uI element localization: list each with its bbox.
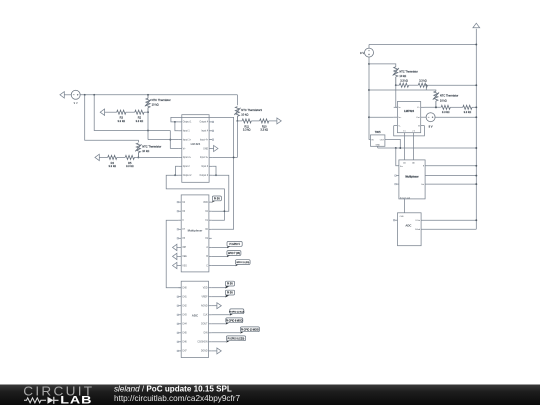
- ground flag F2: [100, 109, 104, 115]
- svg-text:Pi GPIO 5: Pi GPIO 5: [229, 244, 240, 246]
- svg-text:V-: V-: [398, 125, 400, 127]
- wire M2 out to A2: [404, 199, 406, 213]
- M1 pin X5: [178, 237, 181, 239]
- svg-text:9 V: 9 V: [429, 124, 433, 128]
- A2 pin CH1: [395, 219, 398, 221]
- svg-text:R4: R4: [111, 161, 115, 165]
- M2 pin S0: [396, 183, 399, 185]
- svg-text:9 V: 9 V: [360, 51, 364, 55]
- M2 pin right row 175.6: [425, 175, 476, 177]
- svg-text:Pi 5V: Pi 5V: [227, 292, 233, 295]
- svg-text:Pi GPIO 8 (CE0): Pi GPIO 8 (CE0): [228, 338, 245, 340]
- U2 pin Output 1: [179, 121, 182, 123]
- U2 pin Input 1: [179, 130, 182, 132]
- svg-text:LM 324: LM 324: [191, 142, 201, 146]
- svg-text:Input 2: Input 2: [183, 165, 191, 168]
- wire 7805 OUT: [385, 139, 400, 148]
- svg-text:CH5: CH5: [182, 333, 187, 335]
- svg-text:3.3 kΩ: 3.3 kΩ: [464, 110, 472, 114]
- wire to In1+: [148, 139, 179, 141]
- svg-text:Input 4+: Input 4+: [200, 138, 209, 141]
- resistor R2: [135, 110, 144, 114]
- U3 pin Out: [421, 116, 425, 118]
- svg-text:Pi GPIO 11 SCLK: Pi GPIO 11 SCLK: [229, 311, 245, 313]
- svg-text:Input 1: Input 1: [183, 130, 191, 133]
- svg-text:R11: R11: [244, 124, 249, 128]
- M2 pin En: [396, 175, 399, 177]
- svg-text:CH4: CH4: [182, 324, 187, 326]
- svg-text:Multiplexer: Multiplexer: [405, 175, 418, 178]
- wire to V+: [170, 148, 178, 150]
- A1 pin CH4: [178, 323, 181, 325]
- M1 pin VEE: [178, 255, 181, 257]
- wire jog to RT5: [425, 85, 427, 90]
- svg-text:VDD: VDD: [203, 288, 208, 290]
- svg-text:3.3 kΩ: 3.3 kΩ: [109, 164, 117, 168]
- wire drop B to node row: [94, 95, 170, 131]
- M1 pin X4: [178, 201, 181, 203]
- M2 pin right E row 165.8: [425, 165, 476, 167]
- wire RT3 tap down to In3+: [236, 121, 238, 157]
- U2 pin Input 2: [179, 165, 182, 167]
- U3 pin In-: [394, 106, 398, 108]
- wire top rail right: [369, 44, 476, 46]
- A2 pin DOUT: [421, 219, 476, 221]
- svg-text:CH7: CH7: [182, 351, 187, 353]
- M2 pin right Out row 184.1: [425, 183, 476, 185]
- svg-text:X (Com out): X (Com out): [400, 196, 411, 199]
- U2 pin Input 4: [209, 130, 212, 132]
- op-amp U2 LM324: [182, 115, 209, 183]
- U2 pin Output 2: [179, 174, 182, 176]
- svg-text:3.3 kΩ: 3.3 kΩ: [400, 79, 408, 83]
- U2 pin Input 3: [209, 165, 212, 167]
- wire Out3 to mux: [212, 175, 229, 211]
- A1 pin CH7: [178, 350, 181, 352]
- svg-text:R3: R3: [120, 116, 124, 120]
- svg-text:DGnd: DGnd: [415, 229, 420, 231]
- wire In2- feedback: [176, 166, 179, 175]
- wire right bus: [475, 29, 477, 229]
- voltage source V1 9V: [71, 90, 80, 99]
- svg-text:3.3 kΩ: 3.3 kΩ: [118, 119, 126, 123]
- wire to In2+: [134, 156, 178, 158]
- svg-text:9 V: 9 V: [74, 101, 78, 105]
- svg-text:Input 2+: Input 2+: [183, 156, 192, 159]
- svg-text:ADC: ADC: [192, 313, 199, 317]
- A1 pin CH5: [178, 332, 181, 334]
- U2 pin Output 3: [209, 174, 212, 176]
- NTC thermistor RT4: [393, 67, 399, 85]
- svg-text:DIN: DIN: [204, 333, 208, 335]
- svg-text:1 k: 1 k: [403, 130, 406, 132]
- ADC A1 MCP3008: [181, 281, 208, 357]
- U2 pin V+: [179, 148, 182, 150]
- multiplexer M1: [181, 195, 209, 272]
- U3 pin B: [421, 125, 425, 127]
- svg-text:NTC Thermistor: NTC Thermistor: [152, 98, 171, 102]
- power flag (up) right bus: [473, 23, 480, 28]
- NTC thermistor RT1: [145, 95, 151, 112]
- NTC thermistor RT2: [135, 143, 141, 157]
- svg-text:R5: R5: [128, 161, 132, 165]
- net flag Pi GPIO 5: [212, 246, 228, 248]
- svg-text:Pi 5V: Pi 5V: [214, 197, 220, 200]
- svg-text:sleland / PoC update 10.15 SPL: sleland / PoC update 10.15 SPL: [114, 385, 232, 394]
- M1 pin X0: [209, 228, 212, 230]
- svg-text:NTC Thermistor: NTC Thermistor: [440, 94, 459, 98]
- wire R3/R2 row: [104, 111, 116, 113]
- svg-text:CH3: CH3: [182, 315, 187, 317]
- M1 pin X: [178, 219, 181, 221]
- ground flag M1 VEE: [173, 253, 177, 259]
- U3 pin In+: [394, 116, 398, 118]
- M1 pin X1: [209, 219, 212, 221]
- resistor R5: [125, 155, 134, 159]
- svg-text:CLK: CLK: [203, 315, 208, 317]
- wire drop to M2: [396, 148, 399, 166]
- A1 pin AGND: [209, 305, 212, 307]
- wire drop to thermistor RT2: [85, 95, 139, 143]
- svg-text:VEE: VEE: [182, 256, 187, 258]
- svg-text:VSS: VSS: [182, 265, 187, 267]
- M1 pin X2: [209, 210, 212, 212]
- ground flag M1 VSS: [173, 262, 177, 268]
- svg-text:2 k: 2 k: [412, 130, 415, 132]
- wire Out1 feedback + routing over chip: [171, 117, 234, 229]
- net flag Pi 5V (M1 VDD): [211, 200, 218, 203]
- svg-text:CH0: CH0: [400, 216, 404, 218]
- svg-text:A0: A0: [412, 162, 414, 165]
- svg-text:CS/SHDN: CS/SHDN: [197, 342, 208, 344]
- wire RT4 tap to U3 In-: [396, 85, 398, 107]
- resistor R4: [108, 155, 117, 159]
- wire R4/R5 row: [99, 156, 108, 158]
- svg-text:Input 1+: Input 1+: [183, 138, 192, 141]
- svg-text:NTC Thermistor3: NTC Thermistor3: [241, 108, 262, 112]
- voltage source V3 9V: [425, 116, 427, 118]
- svg-text:CH6: CH6: [182, 342, 187, 344]
- A1 pin DGND: [209, 350, 212, 352]
- ground flag chip GND: [212, 148, 214, 150]
- U2 pin Output 4: [209, 121, 212, 123]
- svg-text:NTC Thermistor: NTC Thermistor: [142, 144, 161, 148]
- svg-text:CH1: CH1: [182, 297, 187, 299]
- svg-text:A1: A1: [403, 162, 405, 165]
- ADC A2: [398, 213, 422, 246]
- svg-text:10 kΩ: 10 kΩ: [399, 74, 406, 78]
- svg-text:3.3 kΩ: 3.3 kΩ: [136, 119, 144, 123]
- net flag Pi GPIO 11 SCLK: [211, 314, 230, 316]
- wire 9V top rail: [80, 94, 238, 96]
- net flag Pi 5V (A1 VDD): [211, 287, 225, 289]
- svg-text:GPIO 11 (23): GPIO 11 (23): [236, 262, 249, 264]
- M1 pin X7: [178, 228, 181, 230]
- U2 pin GND: [209, 148, 212, 150]
- wire tap drop: [147, 112, 149, 139]
- ground flag F3: [95, 154, 99, 160]
- ground flag F1: [60, 92, 64, 98]
- A1 pin CH0: [178, 287, 181, 289]
- M1 pin C: [209, 265, 212, 267]
- wire mux X1 to ADC CH0: [166, 220, 181, 288]
- resistor R9: [237, 120, 242, 122]
- voltage source V2 9V: [368, 45, 370, 49]
- ground flag F4: [277, 118, 281, 124]
- svg-text:Out: Out: [421, 183, 425, 186]
- A1 pin CH2: [178, 305, 181, 307]
- U3 pin V+: [421, 106, 425, 108]
- ground flag M1 INH: [173, 244, 177, 250]
- svg-text:DOut: DOut: [416, 219, 421, 222]
- NTC thermistor RT5: [433, 91, 439, 107]
- U2 pin Input 2+: [179, 156, 182, 158]
- ground flag A1 AGND: [211, 305, 217, 307]
- svg-text:Pi GPIO 9 MISO: Pi GPIO 9 MISO: [226, 320, 243, 322]
- svg-text:3.3 kΩ: 3.3 kΩ: [243, 128, 251, 132]
- svg-text:10 kΩ: 10 kΩ: [152, 103, 159, 107]
- wire U3 bottom pins to M2: [404, 133, 406, 160]
- svg-text:3.3 kΩ: 3.3 kΩ: [442, 110, 450, 114]
- svg-text:CH2: CH2: [182, 306, 187, 308]
- net flag Pi GPIO 8 (CE0): [211, 341, 226, 343]
- svg-text:DGND: DGND: [201, 351, 208, 353]
- wire to RT4: [369, 64, 396, 67]
- regulator 7805: [371, 135, 385, 146]
- NTC thermistor RT3: [236, 95, 238, 106]
- svg-text:10 kΩ: 10 kΩ: [241, 112, 248, 116]
- wire In3+ row: [212, 156, 237, 158]
- wire U3 Vplus row resistors: [425, 106, 441, 108]
- svg-text:3.3 kΩ: 3.3 kΩ: [419, 79, 427, 83]
- wire In3- feedback: [212, 166, 216, 175]
- resistor R7 3.3k: [418, 83, 427, 87]
- svg-text:7805: 7805: [375, 130, 381, 134]
- svg-text:CH0: CH0: [182, 288, 187, 290]
- svg-text:Input 3: Input 3: [201, 165, 209, 168]
- A1 pin CH1: [178, 296, 181, 298]
- A1 pin CH3: [178, 314, 181, 316]
- svg-text:Input 4: Input 4: [201, 130, 209, 133]
- net flag GPIO 11 (23): [212, 265, 236, 267]
- A1 pin DIN: [209, 332, 212, 334]
- svg-text:ADC: ADC: [405, 223, 411, 227]
- A1 pin DOUT: [209, 323, 212, 325]
- M1 pin B: [209, 255, 212, 257]
- svg-text:Output 4: Output 4: [199, 121, 208, 124]
- svg-text:http://circuitlab.com/ca2x4bpy: http://circuitlab.com/ca2x4bpy9cfr7: [114, 394, 241, 403]
- svg-text:DOUT: DOUT: [201, 324, 208, 326]
- A1 pin VREF: [209, 296, 212, 298]
- svg-text:VREF: VREF: [201, 297, 208, 299]
- A1 pin CS/SHDN: [209, 341, 212, 343]
- wire U3 In+ row: [369, 116, 394, 118]
- wire U3 loop under: [394, 126, 425, 136]
- resistor R11 3.3k: [463, 105, 472, 109]
- M1 pin INH: [178, 246, 181, 248]
- svg-text:Output 1: Output 1: [183, 121, 192, 124]
- svg-text:VDD: VDD: [203, 202, 208, 204]
- A1 pin VDD: [209, 287, 212, 289]
- svg-text:In-: In-: [398, 107, 401, 109]
- A1 pin CH6: [178, 341, 181, 343]
- M1 pin X3: [209, 237, 212, 239]
- svg-text:Output 2: Output 2: [183, 174, 192, 177]
- op-amp U3 LM7324: [397, 102, 420, 133]
- M1 pin X6: [178, 210, 181, 212]
- multiplexer M2: [399, 160, 425, 199]
- svg-text:3.3 kΩ: 3.3 kΩ: [260, 128, 268, 132]
- resistor R3: [117, 110, 126, 114]
- svg-text:Input 3+: Input 3+: [200, 156, 209, 159]
- svg-text:10 kΩ: 10 kΩ: [440, 98, 447, 102]
- svg-text:NTC Thermistor: NTC Thermistor: [399, 70, 418, 74]
- net flag Pi GPIO 10 MOSI: [211, 332, 240, 334]
- resistor R10: [260, 119, 269, 123]
- net flag Pi GPIO 9 MISO: [211, 323, 226, 325]
- U3 pin V-: [394, 125, 398, 127]
- M1 pin VDD: [209, 201, 212, 203]
- A1 pin CLK: [209, 314, 212, 316]
- wire Out2 to mux: [166, 175, 224, 220]
- svg-text:Out: Out: [416, 116, 420, 119]
- net flag GPIO 7 (26): [212, 255, 228, 257]
- resistor R6 3.3k: [396, 84, 400, 86]
- U2 pin Input 3+: [209, 156, 212, 158]
- svg-text:GPIO 7 (26): GPIO 7 (26): [228, 253, 240, 255]
- svg-text:Multiplexer: Multiplexer: [188, 229, 204, 233]
- wire V2 bottom column: [369, 57, 371, 140]
- svg-text:INH: INH: [182, 247, 186, 249]
- U2 pin Input 1+: [179, 139, 182, 141]
- svg-text:Pi 5V: Pi 5V: [227, 283, 233, 286]
- svg-text:GND: GND: [203, 148, 208, 150]
- svg-text:LAB: LAB: [60, 393, 92, 405]
- ground flag A1 DGND: [211, 350, 217, 352]
- svg-text:LM7324: LM7324: [404, 109, 414, 113]
- wire GND rail: [378, 147, 477, 149]
- wire mid rail right: [369, 90, 436, 91]
- svg-text:3.3 kΩ: 3.3 kΩ: [126, 164, 134, 168]
- svg-text:Pi GPIO 10 MOSI: Pi GPIO 10 MOSI: [241, 329, 259, 331]
- svg-text:R10: R10: [262, 124, 267, 128]
- M1 pin VSS: [178, 265, 181, 267]
- wire loop right side: [169, 131, 171, 149]
- net flag Pi 5V (A1 VREF): [211, 296, 225, 298]
- svg-text:10 kΩ: 10 kΩ: [142, 149, 149, 153]
- svg-text:Output 3: Output 3: [199, 174, 208, 177]
- svg-text:Vcc: Vcc: [400, 166, 403, 168]
- resistor R8 3.3k: [441, 105, 450, 109]
- svg-text:R2: R2: [138, 116, 142, 120]
- M1 pin A: [209, 246, 212, 248]
- U2 pin Input 4+: [209, 139, 212, 141]
- A2 pin DGND: [421, 228, 476, 230]
- svg-text:AGND: AGND: [201, 305, 208, 308]
- wire 7805 GND: [377, 146, 379, 148]
